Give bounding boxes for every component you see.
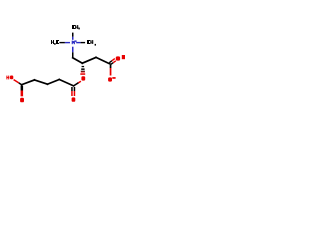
wire chain bond peak c - valley b — [48, 80, 60, 85]
wire bond CH3-N top: black upper — [72, 33, 74, 37]
wire bond N-CH2 vertical: blue upper — [72, 47, 74, 53]
wire bond CH2-COO (down right) — [96, 57, 110, 64]
ester C=O double bond line 1: black then red — [71, 87, 73, 91]
wire bond H3C-N left half black — [59, 42, 65, 43]
wire bond C-O single down: red lower — [110, 68, 112, 76]
carboxylate C=O double bond upper line (black then red) — [109, 61, 112, 63]
wire bond O-C(ester): red upper half — [78, 81, 81, 83]
wire bond C-O single down: black upper — [110, 65, 112, 68]
charge minus block (carboxylate) — [122, 55, 125, 59]
wire chain bond peak a - acid C — [22, 80, 35, 85]
wire bond CH3-N top: blue lower — [72, 37, 74, 40]
wire bond N-CH2 vertical: black lower — [72, 52, 74, 58]
wire bond H3C-N right half blue — [65, 42, 70, 43]
carboxylate C=O double bond lower line (black then red) — [111, 63, 114, 65]
atom O label (acid carbonyl O) — [20, 98, 24, 103]
acid C=O double bond (merged thick bar): black upper — [21, 86, 24, 91]
atom O label (ester carbonyl O) — [72, 97, 76, 101]
atom O- label (carboxylate single-bond O) — [108, 77, 116, 82]
wire bond HO-C: black lower half — [19, 83, 22, 85]
wire bond N-CH3 right: black half — [81, 42, 86, 43]
atom O label (carboxylate double-bond O) — [116, 56, 120, 60]
acid C=O double bond red lower — [21, 91, 24, 97]
atom O label (bridging ester O) — [81, 76, 85, 80]
wire bond O-C(ester): black lower half — [74, 83, 78, 85]
stereo hashed wedge CH to ester O (4 hashes) — [80, 66, 85, 75]
wire bond CH2-CH diagonal — [73, 58, 83, 63]
wire bond CH-CH2 (up right) — [82, 57, 96, 63]
wire bond HO-C: red upper half — [14, 80, 19, 83]
wire bond N-CH3 right: blue half — [76, 42, 80, 43]
wire chain bond valley b - peak a — [35, 80, 48, 84]
ester C=O double bond line 2: black then red — [74, 87, 76, 91]
atom N+ label — [72, 40, 77, 44]
label H3C (left methyl) — [51, 40, 59, 45]
label CH3 (right methyl) — [87, 40, 96, 46]
wire chain bond esterC - CH2 peak c — [59, 80, 73, 86]
label HO (acid hydroxyl) — [6, 76, 13, 80]
label CH3 (top methyl) — [72, 25, 80, 29]
